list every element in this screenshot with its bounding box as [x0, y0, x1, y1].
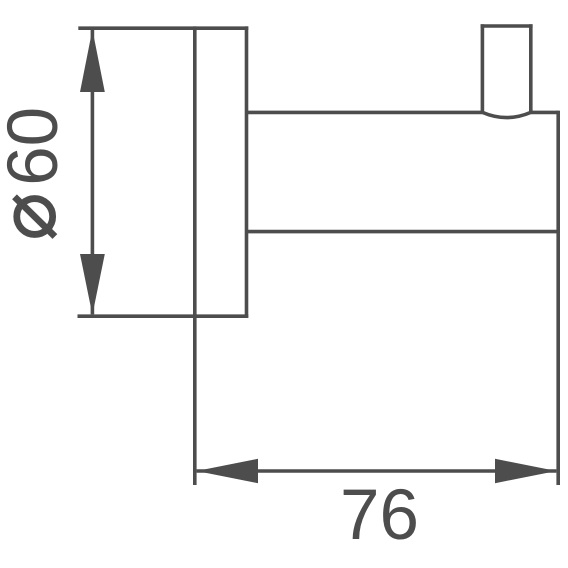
peg right edge: [529, 24, 533, 113]
Ø60 dimension top arrowhead: [80, 30, 105, 93]
svg-text:60: 60: [0, 107, 73, 186]
plate top edge / Ø60 top tick line: [78, 26, 248, 30]
wall plate right edge: [245, 26, 249, 317]
plate bottom edge / Ø60 bottom tick line: [78, 314, 249, 318]
Ø60 dimension text: diameter symbol slash: [15, 197, 55, 237]
Ø60 dimension text: diameter symbol circle: [17, 199, 53, 235]
Ø60 vertical dimension line: [91, 30, 95, 314]
Ø60 dimension bottom arrowhead: [80, 254, 105, 315]
76 horizontal dimension line: [197, 469, 557, 473]
hook arm top line (left of peg): [247, 111, 483, 115]
hook arm bottom line: [247, 230, 559, 234]
wall plate left edge + dimension extension line: [193, 26, 197, 485]
hook arm right edge + dimension extension line: [556, 111, 560, 485]
peg left edge: [481, 24, 485, 113]
hook arm top line (right of peg): [531, 111, 558, 115]
76 dimension left arrowhead: [197, 459, 258, 483]
76 dimension right arrowhead: [495, 459, 556, 483]
svg-text:76: 76: [340, 476, 419, 555]
concave fillet arc under peg: [482, 112, 530, 117]
peg top edge: [481, 24, 533, 28]
